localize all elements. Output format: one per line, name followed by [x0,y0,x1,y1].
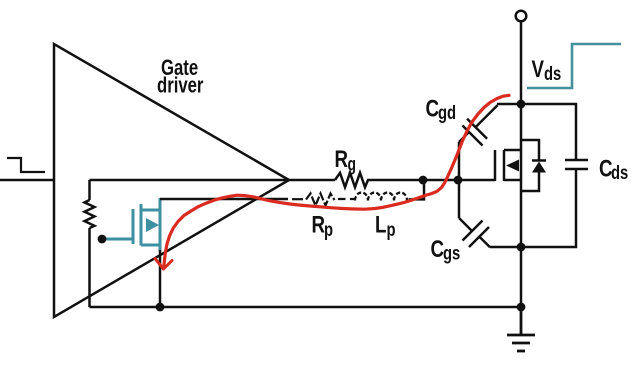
red arrowhead [155,259,172,270]
resistor Rg [335,173,368,187]
input pulse symbol [7,158,45,172]
svg-text:ds: ds [544,63,561,84]
wire dashes Rp to Lp [338,198,355,200]
node drain top [517,100,526,109]
label Vds [532,56,562,85]
wire Rg to gate node [367,179,495,182]
op-amp U1 gate driver triangle [54,44,289,317]
label Rg [335,146,356,175]
wire input to gate driver [0,179,54,182]
label Cgs [431,236,461,264]
svg-text:ds: ds [611,162,628,183]
svg-text:C: C [431,236,445,263]
wire bottom rail [90,306,522,309]
terminal circle top [516,11,527,22]
resistor R1 vertical in driver [85,200,95,228]
wire riser to gate node [409,181,425,199]
label Gate driver [157,56,204,98]
node source [517,243,526,252]
ground [507,307,535,351]
svg-text:g: g [348,153,356,175]
wire Q1 source down [159,250,162,307]
transistor Q1 driver MOSFET (teal) [104,198,160,251]
wire dash before Rp [292,198,303,200]
wire drain rail [520,22,523,308]
wire left vertical of driver stage [88,180,91,200]
label Lp [375,211,396,240]
svg-text:gs: gs [443,243,460,264]
node gate node [454,176,463,185]
node bottom rail [517,303,526,312]
node junction bottom left [156,303,165,312]
svg-text:R: R [335,146,349,173]
node junction Rg/parasitic [419,176,428,185]
inductor Lp (parasitic, dashed) [355,193,407,201]
svg-text:gd: gd [438,102,456,123]
svg-text:p: p [324,219,333,240]
node gate of Q1 [98,235,107,244]
svg-text:driver: driver [157,73,204,98]
transistor Q2 power MOSFET [495,150,521,181]
wire parasitic trace solid part [160,198,288,201]
diode D1 body diode [521,140,546,191]
svg-text:p: p [387,219,396,240]
label Cgd [426,95,457,123]
label Rp [312,211,334,240]
svg-text:C: C [426,95,440,122]
svg-text:V: V [532,56,545,83]
red current path curve [164,95,509,266]
label Cds [599,155,628,183]
svg-text:L: L [375,211,386,238]
wire top rail of driver output stage [90,179,336,182]
resistor Rp (parasitic, dashed) [306,194,335,206]
capacitor Cgd branch [459,104,521,178]
capacitor Cds branch [521,104,588,247]
capacitor Cgs branch [459,182,521,247]
Vds waveform (teal step) [527,44,621,88]
